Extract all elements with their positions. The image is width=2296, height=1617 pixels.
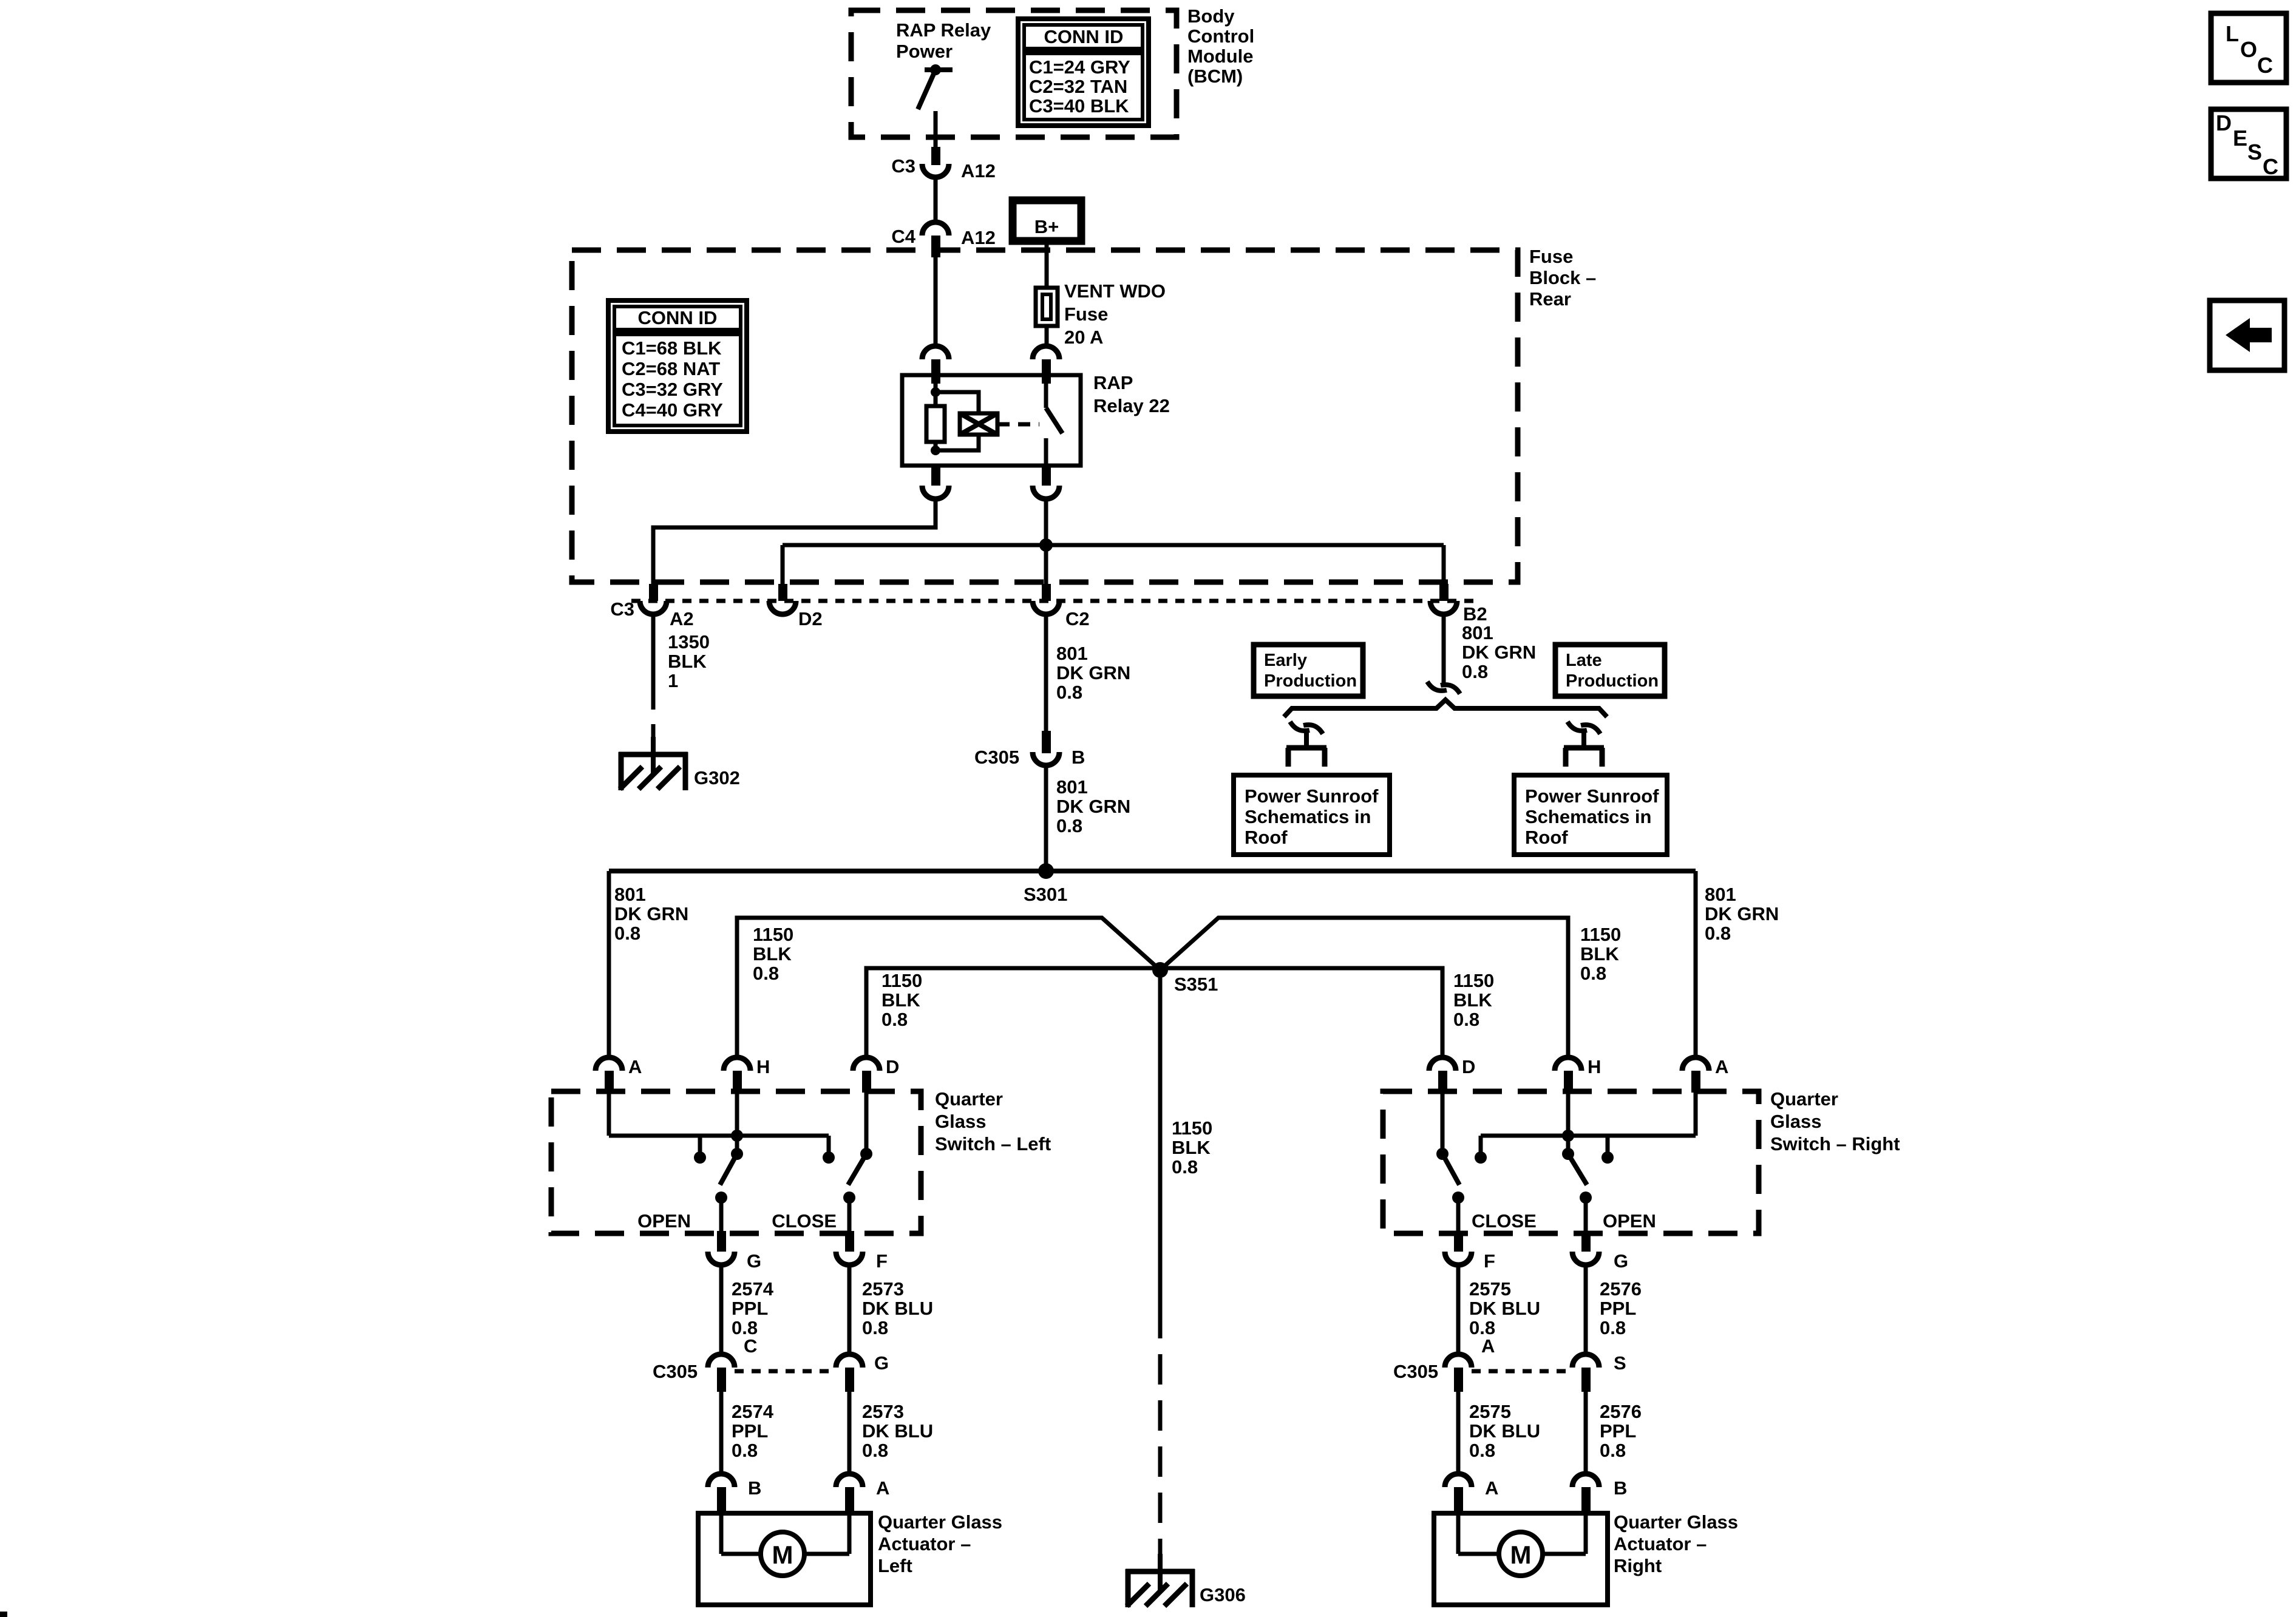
svg-text:C3: C3	[610, 598, 634, 620]
svg-text:A: A	[628, 1056, 642, 1077]
svg-text:DK BLU: DK BLU	[862, 1298, 933, 1319]
svg-text:0.8: 0.8	[1453, 1009, 1479, 1030]
svg-text:(BCM): (BCM)	[1187, 66, 1243, 87]
svg-text:BLK: BLK	[1580, 943, 1619, 964]
svg-text:Quarter: Quarter	[935, 1088, 1003, 1110]
svg-text:801: 801	[1056, 776, 1088, 798]
svg-text:B2: B2	[1463, 603, 1487, 625]
svg-text:Control: Control	[1187, 25, 1254, 47]
svg-text:DK BLU: DK BLU	[862, 1420, 933, 1442]
svg-text:2573: 2573	[862, 1401, 904, 1422]
svg-text:L: L	[2226, 21, 2239, 46]
svg-text:Actuator –: Actuator –	[1614, 1533, 1707, 1554]
svg-text:DK BLU: DK BLU	[1469, 1298, 1540, 1319]
svg-text:PPL: PPL	[1600, 1298, 1636, 1319]
svg-text:2574: 2574	[732, 1401, 774, 1422]
svg-text:DK GRN: DK GRN	[1056, 796, 1130, 817]
svg-text:S301: S301	[1024, 884, 1067, 905]
svg-text:1150: 1150	[1172, 1117, 1212, 1139]
svg-text:PPL: PPL	[732, 1420, 768, 1442]
svg-text:0.8: 0.8	[1462, 661, 1488, 682]
svg-text:Late: Late	[1566, 651, 1602, 670]
svg-text:2576: 2576	[1600, 1278, 1642, 1300]
svg-text:0.8: 0.8	[862, 1317, 888, 1338]
svg-text:Early: Early	[1264, 651, 1307, 670]
svg-text:BLK: BLK	[1172, 1137, 1211, 1158]
svg-text:2575: 2575	[1469, 1278, 1511, 1300]
svg-text:DK GRN: DK GRN	[1462, 642, 1536, 663]
svg-text:801: 801	[614, 884, 646, 905]
svg-text:B: B	[748, 1477, 761, 1499]
svg-text:Production: Production	[1566, 671, 1659, 691]
svg-text:801: 801	[1462, 622, 1493, 643]
svg-text:0.8: 0.8	[1705, 923, 1731, 944]
svg-text:Quarter Glass: Quarter Glass	[1614, 1511, 1738, 1533]
svg-text:Quarter: Quarter	[1770, 1088, 1838, 1110]
svg-text:M: M	[772, 1541, 793, 1569]
svg-text:O: O	[2240, 37, 2257, 62]
svg-text:B: B	[1072, 747, 1085, 768]
svg-text:0.8: 0.8	[1056, 682, 1082, 703]
svg-text:G: G	[747, 1250, 761, 1272]
svg-text:0.8: 0.8	[1600, 1317, 1626, 1338]
svg-text:0.8: 0.8	[732, 1440, 758, 1461]
svg-text:Body: Body	[1187, 5, 1235, 27]
svg-text:Block –: Block –	[1529, 267, 1596, 288]
svg-text:F: F	[1484, 1250, 1495, 1272]
svg-text:Rear: Rear	[1529, 288, 1571, 310]
svg-text:D2: D2	[798, 608, 823, 629]
svg-text:BLK: BLK	[881, 989, 920, 1011]
svg-text:S351: S351	[1174, 974, 1218, 995]
svg-text:Quarter Glass: Quarter Glass	[878, 1511, 1002, 1533]
svg-text:Actuator –: Actuator –	[878, 1533, 971, 1554]
svg-text:M: M	[1510, 1541, 1532, 1569]
svg-text:801: 801	[1705, 884, 1736, 905]
svg-text:C3=32 GRY: C3=32 GRY	[622, 379, 723, 400]
svg-text:0.8: 0.8	[753, 963, 779, 984]
svg-text:0.8: 0.8	[881, 1009, 908, 1030]
svg-text:Power: Power	[896, 41, 953, 62]
svg-text:Fuse: Fuse	[1064, 303, 1108, 325]
svg-text:C4: C4	[891, 226, 915, 247]
svg-text:0.8: 0.8	[862, 1440, 888, 1461]
svg-text:C305: C305	[974, 747, 1019, 768]
svg-text:Glass: Glass	[935, 1111, 986, 1132]
svg-text:RAP Relay: RAP Relay	[896, 19, 991, 41]
svg-text:VENT WDO: VENT WDO	[1064, 280, 1166, 302]
svg-text:Power Sunroof: Power Sunroof	[1245, 785, 1379, 807]
svg-text:Switch – Left: Switch – Left	[935, 1133, 1051, 1154]
svg-text:A: A	[876, 1477, 889, 1499]
svg-text:D: D	[1462, 1056, 1475, 1077]
svg-text:C3: C3	[891, 155, 915, 177]
svg-text:H: H	[756, 1056, 770, 1077]
svg-text:D: D	[886, 1056, 899, 1077]
svg-text:1150: 1150	[753, 924, 793, 945]
svg-text:Roof: Roof	[1525, 827, 1568, 848]
svg-text:C2=32 TAN: C2=32 TAN	[1029, 76, 1127, 97]
svg-text:RAP: RAP	[1093, 372, 1133, 393]
svg-text:0.8: 0.8	[1600, 1440, 1626, 1461]
svg-text:PPL: PPL	[1600, 1420, 1636, 1442]
svg-text:DK GRN: DK GRN	[614, 903, 688, 924]
svg-text:0.8: 0.8	[1172, 1156, 1198, 1178]
svg-text:Schematics in: Schematics in	[1245, 806, 1371, 827]
svg-text:A12: A12	[961, 160, 996, 181]
svg-text:C2=68 NAT: C2=68 NAT	[622, 358, 720, 379]
svg-text:A12: A12	[961, 227, 996, 248]
svg-text:0.8: 0.8	[614, 923, 640, 944]
svg-text:OPEN: OPEN	[1603, 1210, 1656, 1232]
svg-text:PPL: PPL	[732, 1298, 768, 1319]
svg-text:C: C	[2257, 53, 2273, 78]
svg-text:Roof: Roof	[1245, 827, 1288, 848]
svg-text:A: A	[1715, 1056, 1728, 1077]
svg-text:A: A	[1481, 1335, 1495, 1357]
svg-text:1: 1	[668, 670, 678, 691]
svg-text:A: A	[1485, 1477, 1498, 1499]
svg-text:BLK: BLK	[1453, 989, 1492, 1011]
svg-text:S: S	[1614, 1352, 1626, 1374]
svg-text:S: S	[2247, 140, 2262, 164]
svg-text:CLOSE: CLOSE	[772, 1210, 837, 1232]
svg-text:CONN ID: CONN ID	[638, 307, 718, 328]
svg-text:C3=40 BLK: C3=40 BLK	[1029, 95, 1129, 117]
svg-text:20 A: 20 A	[1064, 327, 1103, 348]
svg-text:DK GRN: DK GRN	[1705, 903, 1779, 924]
svg-text:Power Sunroof: Power Sunroof	[1525, 785, 1659, 807]
svg-text:C2: C2	[1065, 608, 1090, 629]
svg-text:C305: C305	[1393, 1361, 1438, 1382]
svg-text:C: C	[744, 1335, 757, 1357]
svg-text:1150: 1150	[1580, 924, 1621, 945]
svg-text:C4=40 GRY: C4=40 GRY	[622, 399, 723, 421]
svg-text:OPEN: OPEN	[637, 1210, 691, 1232]
svg-text:C1=68 BLK: C1=68 BLK	[622, 337, 722, 359]
svg-text:0.8: 0.8	[1056, 815, 1082, 836]
svg-text:Left: Left	[878, 1555, 912, 1576]
svg-text:G: G	[874, 1352, 889, 1374]
svg-text:Glass: Glass	[1770, 1111, 1821, 1132]
svg-text:B: B	[1614, 1477, 1627, 1499]
svg-text:1150: 1150	[881, 970, 922, 991]
svg-text:A2: A2	[670, 608, 694, 629]
svg-text:Module: Module	[1187, 46, 1254, 67]
svg-text:1150: 1150	[1453, 970, 1494, 991]
svg-text:Production: Production	[1264, 671, 1357, 691]
svg-text:801: 801	[1056, 643, 1088, 664]
svg-text:F: F	[876, 1250, 888, 1272]
svg-text:CONN ID: CONN ID	[1044, 26, 1124, 47]
svg-text:BLK: BLK	[753, 943, 792, 964]
svg-text:CLOSE: CLOSE	[1472, 1210, 1537, 1232]
svg-text:2575: 2575	[1469, 1401, 1511, 1422]
svg-text:BLK: BLK	[668, 651, 707, 672]
svg-text:G302: G302	[694, 767, 740, 788]
svg-text:C: C	[2263, 154, 2278, 179]
svg-text:D: D	[2216, 110, 2232, 135]
svg-text:E: E	[2233, 126, 2247, 151]
svg-text:H: H	[1588, 1056, 1601, 1077]
svg-text:2574: 2574	[732, 1278, 774, 1300]
svg-text:C305: C305	[653, 1361, 698, 1382]
svg-text:G306: G306	[1200, 1584, 1246, 1605]
svg-text:0.8: 0.8	[1580, 963, 1606, 984]
svg-text:2576: 2576	[1600, 1401, 1642, 1422]
svg-text:Relay 22: Relay 22	[1093, 395, 1170, 416]
svg-text:Right: Right	[1614, 1555, 1662, 1576]
svg-text:DK BLU: DK BLU	[1469, 1420, 1540, 1442]
svg-text:2573: 2573	[862, 1278, 904, 1300]
svg-text:0.8: 0.8	[1469, 1440, 1495, 1461]
svg-text:DK GRN: DK GRN	[1056, 662, 1130, 683]
svg-text:G: G	[1614, 1250, 1628, 1272]
svg-text:Fuse: Fuse	[1529, 246, 1573, 267]
svg-text:Schematics in: Schematics in	[1525, 806, 1651, 827]
svg-text:C1=24 GRY: C1=24 GRY	[1029, 56, 1130, 78]
svg-text:1350: 1350	[668, 631, 710, 653]
svg-text:B+: B+	[1034, 216, 1059, 237]
svg-text:Switch – Right: Switch – Right	[1770, 1133, 1900, 1154]
